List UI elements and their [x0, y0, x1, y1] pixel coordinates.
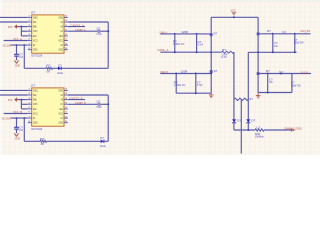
pin 12 U? (bottom) (right) — [64, 108, 68, 110]
resistor R? inline on CANL_A — [221, 51, 234, 53]
svg-text:OA: OA — [61, 94, 64, 97]
junction lower rail branch — [23, 44, 25, 46]
svg-text:D?: D? — [58, 64, 62, 68]
wire power port to pin3 IC2 — [17, 99, 28, 101]
pin 16 U? (top) (right) — [64, 16, 68, 18]
wire resistor to diode — [53, 67, 58, 69]
svg-text:0R: 0R — [41, 142, 44, 146]
resistor R? inline (IC2 lower rail) — [40, 140, 47, 142]
svg-text:R?: R? — [266, 69, 270, 73]
svg-text:R?: R? — [267, 29, 271, 33]
pin 6 U? (top) (left) — [28, 40, 32, 42]
junction TVS / CANH_B — [210, 73, 212, 75]
bottom bus wire — [234, 129, 255, 131]
svg-text:1.00KΩ 1%: 1.00KΩ 1% — [174, 83, 186, 87]
svg-text:100pF 50V: 100pF 50V — [294, 41, 304, 45]
capacitor C2 plates — [14, 126, 19, 128]
wire to pin5 IC2 — [21, 108, 27, 110]
pin 11 U? (top) (right) — [64, 40, 68, 42]
wire lower rail horizontal (IC1) — [24, 67, 46, 69]
power port triangle (top) — [231, 12, 236, 16]
wire CANH_B bus — [160, 73, 211, 75]
diode D? (IC1 lower rail) — [58, 67, 61, 70]
right column rail vertical — [257, 17, 259, 92]
svg-text:OA: OA — [61, 21, 64, 24]
junction CANH out / C2 — [294, 33, 296, 35]
wire stub pin4 IC2 — [21, 103, 27, 105]
pin 2 U? (top) (left) — [28, 21, 32, 23]
svg-text:4.7nF: 4.7nF — [198, 42, 204, 46]
ground symbol (right column) — [257, 93, 259, 96]
pin 11 U? (bottom) (right) — [64, 113, 68, 115]
svg-text:104: 104 — [19, 55, 23, 59]
wire to pin5 — [21, 35, 27, 37]
svg-text:ISO7721DR: ISO7721DR — [31, 54, 43, 58]
wire CANL_A right section — [248, 51, 296, 53]
resistor R? horizontal (choke area) — [234, 98, 248, 100]
wire pin6 IC1 — [4, 40, 28, 42]
junction rail / power — [233, 16, 235, 18]
digital isolator U? (bottom) body — [32, 88, 64, 126]
TVS diode D? (lower) — [210, 70, 213, 73]
capacitor C? inline (IC1 right) — [97, 29, 99, 33]
junction CANL right / C2 — [294, 51, 296, 53]
junction CANL_A / R — [174, 51, 176, 53]
wire branch down from pin7 rail — [23, 45, 25, 68]
pin 6 U? (bottom) (left) — [28, 113, 32, 115]
window edge top — [0, 0, 320, 2]
junction CANL_B out / x — [280, 73, 282, 75]
capacitor C? vertical (right col B inner) — [267, 74, 269, 93]
svg-text:R?: R? — [222, 48, 227, 52]
svg-text:C?: C? — [96, 99, 100, 103]
svg-text:GND2: GND2 — [59, 90, 64, 92]
wire drop right (to D) — [247, 99, 249, 119]
svg-text:IC: IC — [61, 104, 64, 106]
wire CANH_A bus — [160, 33, 211, 35]
pin 1 U? (top) (left) — [28, 16, 32, 18]
capacitor C? vertical (right col A inner) — [272, 34, 274, 53]
svg-text:EN1: EN1 — [33, 36, 37, 38]
wire bus to port — [264, 129, 292, 131]
wire pin1 IC2 to left edge — [0, 89, 28, 91]
wire pin2 IC1 to left edge — [0, 21, 28, 23]
svg-text:GND2: GND2 — [59, 123, 64, 125]
wire D to bus (left) — [233, 123, 235, 130]
svg-text:OUTC: OUTC — [33, 31, 38, 33]
svg-text:D?: D? — [214, 69, 218, 73]
svg-text:VCC2: VCC2 — [59, 114, 64, 116]
svg-text:Diode: Diode — [58, 71, 64, 75]
svg-text:120R: 120R — [181, 30, 188, 34]
top rail VCC — [211, 16, 258, 18]
junction CANH out / C — [272, 33, 274, 35]
junction node pin3 rail — [20, 26, 22, 28]
svg-text:100pF 50V: 100pF 50V — [291, 83, 301, 87]
svg-text:OB: OB — [61, 100, 64, 102]
svg-text:CANH_A_BUS: CANH_A_BUS — [300, 29, 310, 33]
wire stub to pin4 — [21, 30, 27, 32]
ground symbol (TVS chain) — [210, 93, 212, 95]
pin 2 U? (bottom) (left) — [28, 94, 32, 96]
svg-text:NC: NC — [61, 45, 64, 47]
pin 8 U? (top) (left) — [28, 49, 32, 51]
wire pin13 IC2 to cap — [68, 103, 98, 105]
svg-text:GND1: GND1 — [33, 90, 38, 92]
svg-text:NC: NC — [33, 45, 36, 47]
resistor R? inline (IC1 lower rail) — [46, 67, 53, 69]
wire diode to riser (IC2) — [104, 140, 108, 142]
svg-text:100MHz: 100MHz — [255, 135, 264, 139]
junction (108,104) — [107, 103, 109, 105]
junction CANL_A / C — [196, 51, 198, 53]
svg-text:Ω 1%: Ω 1% — [221, 55, 227, 59]
svg-text:C?: C? — [96, 26, 100, 30]
wire CANL_A drop to choke — [233, 52, 235, 99]
svg-text:D?: D? — [214, 31, 218, 35]
capacitor C? inline (IC2 right) — [97, 103, 99, 107]
junction blob right rail / CANL_B out — [257, 72, 260, 75]
svg-text:ISO_GND: ISO_GND — [3, 43, 11, 47]
wire C1 to ground — [16, 56, 18, 60]
capacitor C? vertical (termination B) — [195, 74, 197, 94]
pin 12 U? (top) (right) — [64, 35, 68, 37]
junction CANL_B out / C — [267, 73, 269, 75]
svg-text:GND: GND — [15, 136, 20, 140]
svg-text:OB: OB — [61, 27, 64, 29]
wire power port to pin3 IC1 — [17, 26, 28, 28]
wire drop left (to D) — [233, 99, 235, 119]
svg-text:R?: R? — [40, 137, 45, 141]
wire pin13 IC1 to cap — [68, 30, 98, 32]
svg-text:GND1: GND1 — [33, 17, 38, 19]
junction blob right rail / CANH out — [257, 33, 260, 36]
wire D to bus (right) — [247, 123, 249, 130]
svg-text:Diode: Diode — [100, 144, 106, 148]
junction CANH_B / R — [175, 73, 177, 75]
svg-text:ISO7721DR: ISO7721DR — [31, 127, 43, 131]
svg-text:104: 104 — [19, 128, 23, 132]
junction CANH_A / R — [174, 33, 176, 35]
svg-text:GND1: GND1 — [33, 50, 38, 52]
svg-text:1nF: 1nF — [269, 80, 273, 84]
svg-text:ISO_GND: ISO_GND — [2, 116, 10, 120]
svg-text:EN2: EN2 — [59, 109, 63, 111]
svg-text:GND2: GND2 — [59, 17, 64, 19]
pin 3 U? (bottom) (left) — [28, 99, 32, 101]
svg-text:NC: NC — [33, 118, 36, 120]
junction C2 branch — [16, 117, 18, 119]
svg-text:CANL_A: CANL_A — [157, 48, 168, 52]
pin 9 U? (top) (right) — [64, 49, 68, 51]
window edge left — [0, 0, 1, 155]
pin 5 U? (top) (left) — [28, 35, 32, 37]
junction gnd return / C — [195, 92, 197, 94]
wire pin1 IC1 to left edge — [0, 16, 28, 18]
junction lower rail branch IC2 — [23, 117, 25, 119]
svg-text:INB: INB — [33, 100, 37, 102]
capacitor C? vertical (right col A outer) — [294, 34, 296, 53]
pin 10 U? (top) (right) — [64, 44, 68, 46]
svg-text:GND1: GND1 — [33, 123, 38, 125]
pin 13 U? (bottom) (right) — [64, 103, 68, 105]
wire pin7 IC1 — [11, 44, 28, 46]
long stub vertical — [240, 99, 242, 153]
wire riser x108 (IC2) — [107, 95, 109, 141]
svg-text:120R: 120R — [181, 70, 188, 74]
svg-text:VCC2: VCC2 — [59, 41, 64, 43]
junction (108,31) — [107, 30, 109, 32]
pin 7 U? (bottom) (left) — [28, 117, 32, 119]
svg-text:U?: U? — [31, 10, 36, 14]
wire diode to riser — [61, 67, 108, 69]
TVS diode D? (bottom left) — [232, 119, 236, 122]
pin 14 U? (bottom) (right) — [64, 99, 68, 101]
svg-text:D?: D? — [100, 136, 104, 140]
wire pin14 IC2 stub — [68, 99, 85, 101]
TVS rail vertical — [210, 17, 212, 93]
wire CANL_A bus — [160, 51, 221, 53]
svg-text:D?: D? — [251, 119, 256, 123]
pin 1 U? (bottom) (left) — [28, 89, 32, 91]
ground symbol (below C2) — [15, 133, 17, 136]
wire B ground return right — [258, 92, 292, 94]
svg-text:VCC1: VCC1 — [33, 114, 38, 116]
junction bottom bus — [247, 129, 249, 131]
svg-text:GND2: GND2 — [59, 50, 64, 52]
svg-text:4.7nF: 4.7nF — [197, 83, 203, 87]
svg-text:1nF: 1nF — [274, 44, 278, 48]
pin 5 U? (bottom) (left) — [28, 108, 32, 110]
svg-text:3V3: 3V3 — [8, 98, 13, 102]
svg-text:INA: INA — [33, 94, 37, 97]
svg-text:VCC: VCC — [231, 8, 236, 12]
wire branch down from pin7 rail IC2 — [23, 118, 25, 141]
svg-text:1.00KΩ 1%: 1.00KΩ 1% — [173, 42, 185, 46]
svg-text:U?: U? — [31, 83, 36, 87]
svg-text:OUTC: OUTC — [33, 104, 38, 106]
svg-text:INB: INB — [33, 27, 37, 29]
svg-text:IC: IC — [61, 31, 64, 33]
wire CANL drop to choke right — [247, 52, 249, 99]
svg-text:INA: INA — [33, 21, 37, 24]
junction pin3 rail IC2 — [20, 99, 22, 101]
wire cap to junction IC2 — [100, 103, 108, 105]
junction CANH_B / C — [195, 73, 197, 75]
wire down to C2 — [16, 118, 18, 127]
svg-text:0.1uF: 0.1uF — [96, 105, 102, 109]
svg-text:NC: NC — [61, 118, 64, 120]
svg-text:EN2: EN2 — [59, 36, 63, 38]
pin 4 U? (bottom) (left) — [28, 103, 32, 105]
capacitor C? vertical (right col B outer) — [291, 74, 293, 93]
wire vertical tie pins IC2 — [20, 100, 22, 109]
pin 13 U? (top) (right) — [64, 30, 68, 32]
wire pin6 IC2 — [4, 113, 28, 115]
svg-text:CANBUS_GND1: CANBUS_GND1 — [284, 127, 302, 131]
svg-text:0.1uF: 0.1uF — [96, 32, 102, 36]
pin 9 U? (bottom) (right) — [64, 122, 68, 124]
inductor L? inline (bottom bus) — [255, 129, 264, 131]
svg-text:CANL_B_BUS: CANL_B_BUS — [301, 70, 308, 74]
wire down to C1 — [16, 45, 18, 54]
wire vertical tie pins 3/4/5 — [20, 27, 22, 36]
capacitor C1 plates — [14, 53, 19, 55]
wire CANH_A out — [258, 33, 310, 35]
wire riser x108 (IC1) — [107, 22, 109, 68]
TVS diode D? (upper) — [210, 33, 213, 36]
junction CANH_A / C — [196, 33, 198, 35]
pin 10 U? (bottom) (right) — [64, 117, 68, 119]
pin 15 U? (top) (right) — [64, 21, 68, 23]
svg-text:R?: R? — [249, 97, 253, 101]
pin 16 U? (bottom) (right) — [64, 89, 68, 91]
pin 4 U? (top) (left) — [28, 30, 32, 32]
junction C1 branch — [16, 44, 18, 46]
wire ground return (termination B) — [176, 92, 211, 94]
pin 7 U? (top) (left) — [28, 44, 32, 46]
junction CANL_A / TVS rail — [210, 51, 212, 53]
wire pin15 IC1 top run — [68, 21, 108, 23]
digital isolator U? (top) body — [32, 15, 64, 53]
pin 14 U? (top) (right) — [64, 26, 68, 28]
wire pin2 IC2 to left edge — [0, 94, 28, 96]
svg-text:TP?: TP? — [282, 30, 287, 34]
ground symbol (below C1) — [15, 60, 17, 63]
wire CANL_B out — [258, 73, 311, 75]
svg-text:3V3: 3V3 — [8, 25, 13, 29]
wire pin15 IC2 top run — [68, 94, 108, 96]
TVS diode D? (bottom right) — [246, 119, 250, 122]
svg-text:VCC1: VCC1 — [33, 41, 38, 43]
resistor R? vertical (termination A) — [174, 34, 176, 52]
svg-text:0R: 0R — [47, 69, 50, 73]
svg-text:GND: GND — [15, 63, 20, 67]
junction CANL right / rail — [257, 51, 259, 53]
junction CANL right / C — [272, 51, 274, 53]
wire lower rail horizontal (IC2) — [24, 140, 40, 142]
junction B gnd return / C — [267, 92, 269, 94]
wire C2 to ground — [16, 129, 18, 133]
wire resistor to diode (IC2) — [47, 140, 101, 142]
svg-text:R?: R? — [46, 64, 51, 68]
wire pin7 IC2 — [11, 117, 28, 119]
capacitor C? vertical (termination A) — [196, 34, 198, 52]
resistor R? vertical (termination B) — [175, 74, 177, 94]
svg-text:EN1: EN1 — [33, 109, 37, 111]
pin 15 U? (bottom) (right) — [64, 94, 68, 96]
wire pin14 IC1 stub — [68, 26, 85, 28]
pin 3 U? (top) (left) — [28, 26, 32, 28]
wire cap to junction — [100, 30, 108, 32]
pin 8 U? (bottom) (left) — [28, 122, 32, 124]
diode D? (IC2 lower rail) — [101, 140, 104, 143]
